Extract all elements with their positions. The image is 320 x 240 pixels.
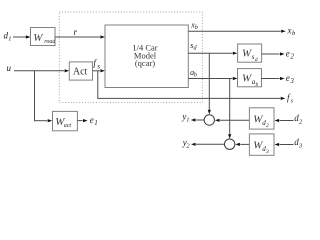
node fs output label [287,92,294,104]
wire Wact to e1 [77,119,87,122]
block Wd3 [249,134,274,155]
svg-text:b: b [194,73,197,79]
svg-text:e: e [286,48,290,58]
wire ab to Wab [188,77,237,80]
node fs label at Act output [93,58,100,71]
svg-text:2: 2 [266,123,269,129]
block Act [69,62,92,80]
svg-text:s: s [97,63,100,71]
wire fs branch down and right to output [97,71,285,100]
svg-text:u: u [7,63,12,73]
svg-text:W: W [242,72,252,84]
wire sd to Wsd [188,52,237,55]
svg-text:s: s [291,97,294,104]
svg-text:1: 1 [186,117,189,124]
block 1/4 Car Model (qcar) [105,25,188,88]
node d2 label [294,113,303,125]
svg-text:1: 1 [8,36,11,43]
svg-text:Act: Act [73,66,88,77]
node y1 label [181,112,189,124]
node e1 label [90,115,98,127]
svg-text:x: x [287,25,292,35]
svg-text:2: 2 [186,142,190,149]
node e2 label [286,48,295,60]
node d3 label [294,137,303,149]
svg-text:(qcar): (qcar) [135,58,155,68]
node xb output label [287,25,297,37]
svg-text:W: W [33,32,43,44]
svg-text:d: d [194,46,198,52]
wire d2 to Wd2 [275,119,294,122]
wire d3 to Wd3 [275,143,294,146]
block Wd2 [249,108,274,129]
wire sum2 to y2 [191,143,224,146]
wire xb output [188,30,285,33]
wire sd branch down to sum1 [208,53,211,114]
svg-text:d: d [255,57,258,63]
wire u to Act [14,69,69,72]
wire d1 to Wroad [13,35,31,38]
svg-text:road: road [44,39,56,45]
svg-text:r: r [74,27,78,37]
summing junction sum2 [225,139,235,149]
wire Wd2 to sum1 [215,119,250,122]
node xb label at block [190,20,198,31]
svg-text:2: 2 [299,118,303,125]
svg-text:3: 3 [265,149,269,155]
block Wact [53,111,78,130]
wire Act output fs into car model [93,69,106,72]
svg-text:3: 3 [298,142,303,149]
node d1 label [4,31,12,43]
svg-text:3: 3 [289,77,294,85]
svg-text:act: act [64,123,72,129]
svg-text:e: e [90,115,94,125]
wire r from Wroad to car model [55,27,105,38]
wire Wab to e3 [262,77,285,80]
dashed subsystem boundary P [59,12,202,103]
node sd label at block [190,41,197,52]
wire u branch down to Wact [34,71,52,123]
wire sum1 to y1 [191,118,204,121]
wire Wsd to e2 [262,52,285,55]
block Wab [238,69,262,88]
wire Wd3 to sum2 [235,143,249,146]
wire ab branch down to sum2 [228,79,231,139]
svg-text:1: 1 [94,119,98,127]
svg-text:b: b [256,82,259,88]
svg-text:b: b [195,25,198,31]
svg-text:W: W [242,48,252,60]
summing junction sum1 [204,115,214,125]
svg-text:b: b [292,30,296,37]
node u label [7,63,12,73]
svg-text:2: 2 [290,52,294,60]
block Wroad [31,28,57,46]
node e3 label [286,73,295,85]
node ab label at block [190,68,197,79]
node y2 label [182,137,191,149]
svg-text:e: e [286,73,290,83]
block Wsd [238,44,262,63]
